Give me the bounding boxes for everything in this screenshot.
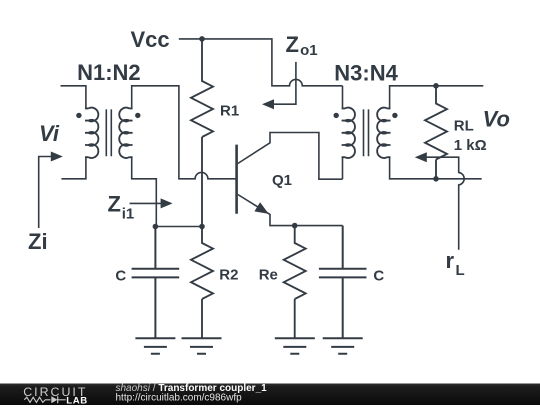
transformer T1 core — [106, 109, 111, 156]
wire N4 bottom to output — [390, 157, 482, 179]
svg-text:Q1: Q1 — [272, 172, 292, 189]
wire N2 bottom to node A — [132, 157, 157, 226]
junction dot RL bottom — [433, 176, 439, 182]
transistor Q1 collector — [238, 133, 343, 180]
svg-text:1 kΩ: 1 kΩ — [454, 137, 487, 154]
ground below C right — [323, 338, 363, 353]
capacitor C left — [132, 227, 180, 339]
footer bar — [0, 384, 540, 406]
T2 primary phase dot — [334, 113, 339, 118]
probe arrow Zi1 — [130, 202, 163, 204]
svg-text:i1: i1 — [122, 206, 135, 223]
footer logo resistor squiggle — [24, 397, 50, 402]
svg-text:L: L — [456, 262, 465, 279]
wire Vcc rail — [179, 39, 343, 86]
svg-text:o1: o1 — [300, 42, 318, 59]
svg-text:N3:N4: N3:N4 — [334, 60, 398, 85]
svg-text:C: C — [373, 267, 384, 284]
ground below C left — [135, 338, 175, 353]
svg-text:R1: R1 — [220, 103, 239, 120]
svg-text:Zi: Zi — [28, 229, 48, 254]
Q1 emitter arrowhead — [254, 202, 268, 214]
ground below Re — [275, 338, 315, 353]
svg-text:Vo: Vo — [483, 107, 510, 132]
T1 secondary phase dot — [135, 113, 140, 118]
wire N2 top to base (hops over R1) — [132, 86, 237, 179]
inductor T1 primary coil N1 — [85, 108, 98, 158]
junction dot node A — [153, 224, 159, 230]
resistor RL — [425, 86, 447, 179]
probe arrow Zi — [39, 157, 54, 229]
T2 secondary phase dot — [392, 113, 397, 118]
inductor T2 secondary coil N4 — [377, 108, 390, 158]
ground below R2 — [182, 338, 222, 353]
wire T1 primary bottom terminal — [61, 157, 86, 179]
capacitor C right — [319, 226, 367, 339]
inductor T2 primary coil N3 — [342, 108, 355, 158]
transistor Q1 emitter — [238, 195, 343, 226]
probe line Zo1 with arrow — [272, 62, 296, 104]
wire T1 primary top terminal — [61, 86, 86, 109]
svg-text:RL: RL — [454, 117, 474, 134]
svg-text:Vi: Vi — [39, 121, 60, 146]
svg-text:LAB: LAB — [66, 395, 88, 405]
junction dot RL top — [433, 83, 439, 89]
resistor Re — [284, 226, 306, 339]
transformer T2 core — [364, 109, 369, 156]
T1 primary phase dot — [76, 113, 81, 118]
wire N3 top lead — [342, 86, 344, 109]
svg-text:N1:N2: N1:N2 — [77, 60, 141, 85]
svg-text:Vcc: Vcc — [131, 27, 170, 52]
footer logo diode — [51, 396, 57, 403]
wire N4 top to output — [390, 86, 484, 109]
wire N3 bottom lead — [342, 157, 344, 179]
inductor T1 secondary coil N2 — [119, 108, 132, 158]
probe line rL with arrow (hops over wire) — [425, 157, 464, 250]
svg-text:r: r — [446, 248, 455, 273]
wire node A to node B — [155, 226, 202, 228]
transistor Q1 base bar — [235, 145, 238, 214]
junction dot node B — [199, 224, 205, 230]
svg-text:Z: Z — [286, 32, 299, 57]
node junction dot Vcc/R1 — [199, 36, 205, 42]
junction dot emitter node — [292, 223, 298, 229]
svg-text:http://circuitlab.com/c986wfp: http://circuitlab.com/c986wfp — [116, 393, 243, 404]
svg-text:Re: Re — [259, 266, 278, 283]
svg-text:R2: R2 — [219, 267, 238, 284]
svg-text:Z: Z — [108, 191, 121, 216]
resistor R2 — [191, 227, 213, 339]
resistor R1 — [191, 39, 213, 227]
svg-text:C: C — [115, 267, 126, 284]
